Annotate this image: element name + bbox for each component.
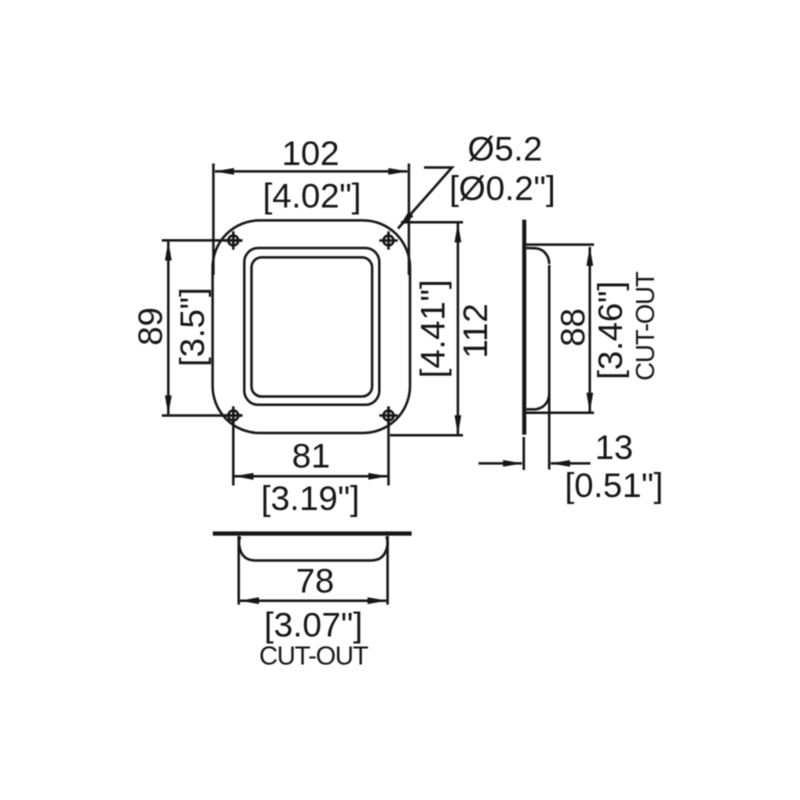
bottom view dish profile (239, 537, 388, 561)
svg-text:88: 88 (554, 308, 592, 346)
side view top lip line / 88 extension top (524, 243, 594, 246)
svg-text:Ø5.2: Ø5.2 (468, 131, 543, 169)
dimension 81 line (235, 475, 388, 478)
dimension 112 line (457, 224, 460, 435)
svg-text:102: 102 (282, 135, 340, 173)
dimension 112 extension lines (401, 221, 463, 224)
arrowheads dimension 88 (586, 246, 593, 266)
front view plate outline (213, 220, 410, 433)
bottom view plate face bar (213, 531, 412, 535)
13 extension line left (523, 437, 526, 470)
svg-text:81: 81 (292, 438, 330, 476)
arrowheads dimension 81 (234, 473, 254, 480)
dimension 88 line (589, 247, 592, 412)
side view dish bottom curve (526, 394, 549, 410)
side view plate face bar (522, 220, 526, 435)
svg-text:[3.19"]: [3.19"] (261, 480, 360, 518)
svg-text:13: 13 (595, 429, 633, 467)
hole bottom-right (379, 406, 397, 424)
dimension 102 extension lines (212, 164, 215, 276)
dimension 89 extension lines (162, 239, 242, 242)
side view bottom lip line / 88 extension bottom (524, 412, 594, 415)
side view dish wall and 13 extension right (548, 265, 551, 470)
svg-text:CUT-OUT: CUT-OUT (630, 271, 660, 381)
svg-text:112: 112 (457, 303, 495, 358)
arrowheads dimension 13 (503, 460, 523, 467)
hole top-left (224, 231, 242, 249)
side view dish top curve (526, 248, 549, 264)
hole top-right (379, 231, 397, 249)
svg-text:[3.07"]: [3.07"] (264, 607, 363, 645)
dimension 89 line (167, 242, 170, 415)
svg-text:CUT-OUT: CUT-OUT (259, 641, 369, 671)
dimension 13 line right part (551, 462, 591, 465)
dimension 78 extension lines (237, 536, 240, 605)
svg-text:[Ø0.2"]: [Ø0.2"] (449, 170, 555, 208)
dimension 102 line (215, 170, 407, 173)
dimension 78 line (240, 599, 386, 602)
svg-text:89: 89 (132, 307, 170, 345)
arrowheads dimension 78 (240, 597, 260, 604)
svg-text:[3.5"]: [3.5"] (174, 287, 212, 366)
arrowheads dimension 102 (215, 168, 235, 175)
hole bottom-left (224, 406, 242, 424)
svg-text:[4.41"]: [4.41"] (415, 280, 453, 379)
dimension 13 line left part (479, 462, 523, 465)
dish inner ring (252, 257, 373, 396)
arrowheads dimension 112 (455, 223, 462, 243)
dimension 81 extension lines (232, 407, 235, 486)
svg-text:78: 78 (296, 563, 334, 601)
arrowhead leader (398, 212, 414, 229)
svg-text:[0.51"]: [0.51"] (565, 467, 664, 505)
leader line for hole diameter (398, 168, 452, 229)
svg-text:[4.02"]: [4.02"] (263, 178, 362, 216)
arrowheads dimension 89 (165, 241, 172, 261)
dish outer ring (244, 248, 379, 405)
svg-text:[3.46"]: [3.46"] (592, 281, 630, 380)
